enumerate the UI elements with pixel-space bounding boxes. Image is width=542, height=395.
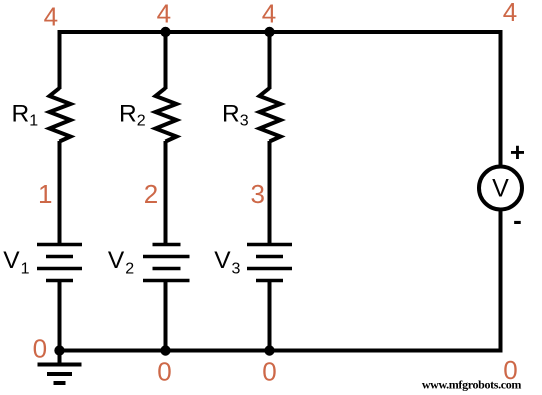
battery V1 <box>37 245 82 281</box>
junction dot node 0 branch 2 <box>160 345 170 355</box>
wire branch 1 bottom (V1 to node 0 and ground) <box>58 281 62 365</box>
resistor R2 <box>156 88 177 142</box>
svg-text:4: 4 <box>262 0 276 28</box>
wire branch 1 top (node 4 to R1) <box>58 30 62 89</box>
voltmeter U1 circle <box>479 167 522 210</box>
junction dot node 0 branch 3 <box>264 345 274 355</box>
wire branch 3 middle (R3 to V3, node 3) <box>268 141 272 245</box>
svg-text:2: 2 <box>144 179 158 209</box>
resistor R3 <box>260 88 281 142</box>
junction dot node 4 branch 3 <box>264 27 274 37</box>
svg-text:0: 0 <box>33 334 47 364</box>
wire branch 2 middle (R2 to V2, node 2) <box>164 141 168 245</box>
wire top bus node 4 <box>58 30 503 34</box>
wire branch 3 top (node 4 to R3) <box>268 30 272 89</box>
svg-text:0: 0 <box>262 356 276 386</box>
junction dot node 4 branch 2 <box>160 27 170 37</box>
svg-text:4: 4 <box>503 0 517 27</box>
wire branch 2 bottom (V2 to node 0) <box>164 281 168 353</box>
junction dot node 0 branch 1 <box>54 345 64 355</box>
ground <box>38 365 82 384</box>
resistor R1 <box>50 88 71 142</box>
svg-text:0: 0 <box>157 356 171 386</box>
svg-text:www.mfgrobots.com: www.mfgrobots.com <box>422 378 522 392</box>
svg-text:V: V <box>492 175 509 203</box>
svg-text:-: - <box>513 205 522 235</box>
svg-text:4: 4 <box>44 2 58 32</box>
svg-text:+: + <box>510 137 525 167</box>
wire right vertical lower (voltmeter - to node 0) <box>499 211 503 353</box>
wire branch 2 top (node 4 to R2) <box>164 30 168 89</box>
wire branch 3 bottom (V3 to node 0) <box>268 281 272 353</box>
svg-text:4: 4 <box>157 0 171 28</box>
svg-text:1: 1 <box>38 179 52 209</box>
wire right vertical upper (node 4 to voltmeter +) <box>499 30 503 165</box>
battery V2 (reversed polarity) <box>143 245 190 281</box>
wire branch 1 middle (R1 to V1, node 1) <box>58 141 62 245</box>
svg-text:3: 3 <box>250 179 264 209</box>
battery V3 <box>247 245 292 281</box>
wire bottom bus node 0 <box>58 349 503 353</box>
